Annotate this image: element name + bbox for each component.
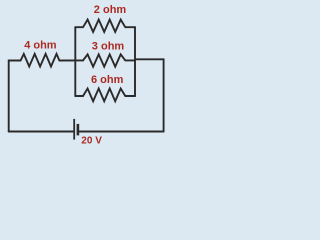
svg-text:3 ohm: 3 ohm xyxy=(92,41,125,53)
svg-text:2 ohm: 2 ohm xyxy=(94,4,127,16)
svg-text:4 ohm: 4 ohm xyxy=(24,40,57,52)
svg-text:20 V: 20 V xyxy=(81,136,102,147)
svg-text:6 ohm: 6 ohm xyxy=(91,74,124,86)
